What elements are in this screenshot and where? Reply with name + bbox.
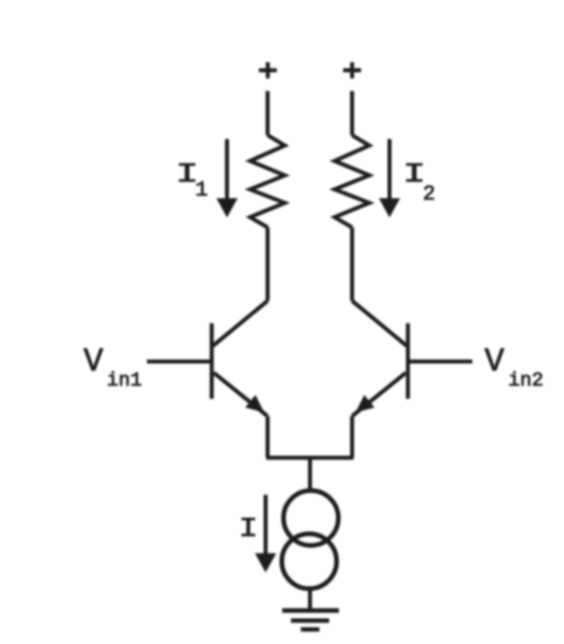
- transistor Q2: [352, 301, 408, 416]
- label I1: [176, 159, 208, 203]
- wire: Q2 emitter down: [350, 416, 354, 458]
- label V_in1: [84, 343, 142, 391]
- wire: right supply to R2: [350, 91, 354, 135]
- wire: left supply to R1: [266, 91, 270, 135]
- label V_in2: [485, 343, 544, 391]
- svg-text:2: 2: [423, 184, 436, 207]
- supply + (left): [259, 62, 277, 78]
- svg-text:in1: in1: [107, 370, 142, 392]
- label I2: [403, 159, 436, 207]
- wire: Q1 emitter down: [266, 416, 270, 458]
- current arrow I: [255, 495, 276, 573]
- ground: [282, 611, 339, 630]
- svg-text:V: V: [84, 343, 104, 380]
- current source I (two circles): [282, 491, 338, 589]
- svg-text:in2: in2: [508, 370, 543, 392]
- supply + (right): [343, 62, 361, 78]
- wire: Q2 base lead: [408, 360, 472, 364]
- svg-text:1: 1: [195, 180, 208, 203]
- current arrow I1: [216, 139, 237, 218]
- wire: R1 to Q1 collector: [266, 227, 270, 300]
- wire: current source to ground: [308, 589, 312, 611]
- svg-text:V: V: [485, 343, 505, 380]
- wire: rail to current source: [308, 458, 312, 490]
- wire: Q1 base lead: [147, 360, 212, 364]
- wire: R2 to Q2 collector: [350, 227, 354, 300]
- resistor R2: [335, 135, 370, 227]
- transistor Q1: [212, 301, 268, 416]
- svg-text:I: I: [239, 513, 258, 544]
- wire: emitter rail: [266, 456, 353, 460]
- resistor R1: [250, 135, 285, 227]
- current arrow I2: [379, 139, 400, 218]
- label I: [239, 513, 258, 544]
